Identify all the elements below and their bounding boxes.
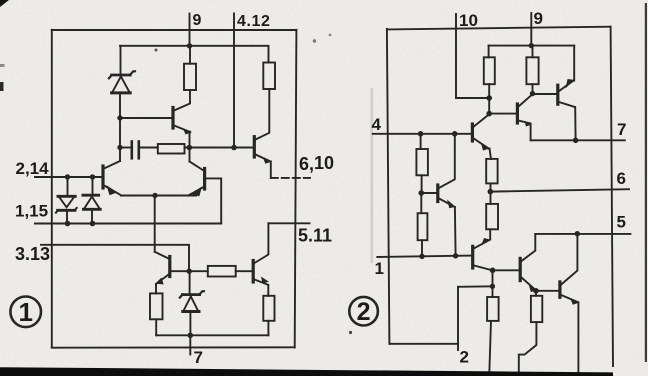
svg-text:7: 7 bbox=[194, 348, 203, 367]
svg-text:6: 6 bbox=[617, 169, 626, 188]
svg-text:5.11: 5.11 bbox=[298, 226, 332, 246]
svg-text:7: 7 bbox=[617, 120, 626, 139]
svg-text:3.13: 3.13 bbox=[15, 244, 50, 264]
svg-text:2: 2 bbox=[357, 298, 371, 326]
svg-text:4: 4 bbox=[372, 115, 382, 134]
svg-text:10: 10 bbox=[314, 153, 334, 173]
svg-text:6,: 6, bbox=[299, 154, 314, 174]
svg-text:4.12: 4.12 bbox=[237, 13, 271, 30]
svg-text:1: 1 bbox=[375, 259, 384, 278]
svg-text:5: 5 bbox=[617, 213, 626, 232]
svg-text:1,15: 1,15 bbox=[15, 202, 48, 221]
svg-text:9: 9 bbox=[534, 9, 543, 28]
svg-text:9: 9 bbox=[193, 12, 202, 29]
svg-text:10: 10 bbox=[459, 11, 478, 30]
svg-text:2: 2 bbox=[460, 348, 469, 367]
svg-text:1: 1 bbox=[18, 297, 32, 327]
svg-text:2,14: 2,14 bbox=[16, 159, 50, 178]
